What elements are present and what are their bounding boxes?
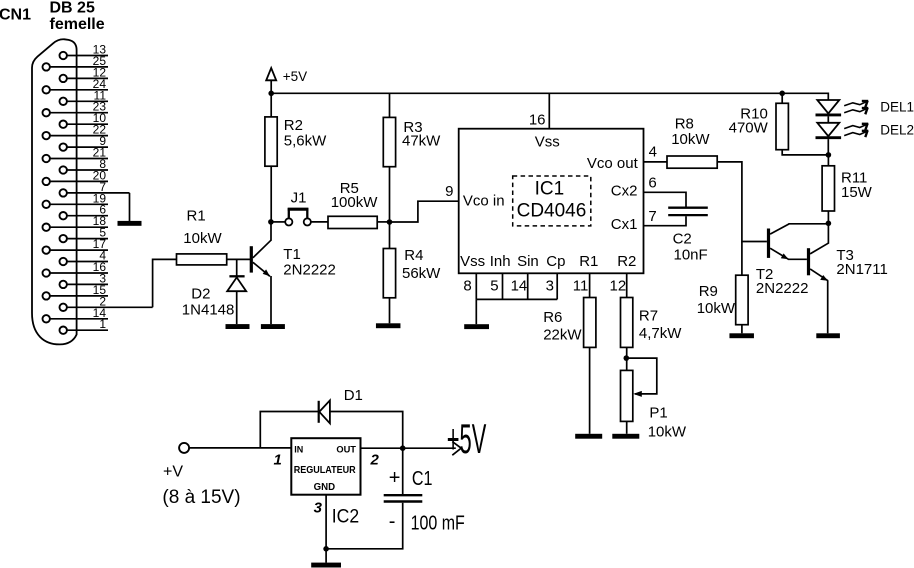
svg-text:2N2222: 2N2222 <box>283 261 336 278</box>
svg-text:10nF: 10nF <box>674 247 708 264</box>
svg-text:R9: R9 <box>699 283 718 300</box>
wire IC1 pin 11 to R6 <box>589 273 591 297</box>
svg-text:470W: 470W <box>729 119 769 136</box>
wire +V to regulator IN <box>189 447 291 449</box>
connector pin 6 contact <box>60 212 67 219</box>
svg-text:R1: R1 <box>187 207 206 224</box>
wire node to IC1 pin 9 <box>390 201 459 222</box>
svg-text:15W: 15W <box>841 184 873 201</box>
svg-text:Vco out: Vco out <box>587 155 639 172</box>
svg-text:10kW: 10kW <box>183 230 222 247</box>
wire pin 12 lead <box>67 77 108 79</box>
connector pin 2 contact <box>60 304 67 311</box>
ground R6 <box>575 434 602 439</box>
wire pin 19 lead <box>50 203 108 205</box>
wire pin 9 lead <box>67 146 108 148</box>
svg-text:9: 9 <box>445 183 453 200</box>
wire pin 18 lead <box>50 226 108 228</box>
svg-text:CD4046: CD4046 <box>517 201 587 222</box>
wire pin 21 lead <box>50 158 108 160</box>
connector pin 7 contact <box>60 189 67 196</box>
node T2 T3 collectors <box>826 221 832 227</box>
svg-text:2N2222: 2N2222 <box>756 280 809 297</box>
wire pin 22 lead <box>50 135 108 137</box>
wire R11 to collector node <box>827 211 829 223</box>
LED DEL1 <box>816 100 842 115</box>
wire DEL2 to node <box>827 139 829 155</box>
wire pin 3 lead <box>67 283 108 285</box>
connector pin 5 contact <box>60 235 67 242</box>
op-amp/PLL IC1 CD4046 box <box>459 129 644 274</box>
wire pin 7 to ground <box>129 193 131 221</box>
svg-text:12: 12 <box>610 278 627 295</box>
node R7 P1 wiper <box>624 355 630 361</box>
wire IC1 pin 3 <box>556 273 558 299</box>
svg-text:DEL1: DEL1 <box>880 100 914 115</box>
svg-text:D2: D2 <box>191 286 210 303</box>
svg-text:T1: T1 <box>283 246 301 263</box>
svg-text:IC1: IC1 <box>535 178 565 199</box>
wire pin 8 lead <box>67 169 108 171</box>
svg-text:R2: R2 <box>617 253 636 270</box>
svg-text:DEL2: DEL2 <box>880 122 914 137</box>
wire R2 to T1 collector <box>270 166 272 222</box>
resistor R5 <box>328 216 377 228</box>
wire IC1 pin 16 to rail <box>548 93 550 128</box>
wire pin 25 lead <box>50 66 108 68</box>
node R10 LED R11 <box>826 152 832 158</box>
wire pin 7 lead <box>67 192 130 194</box>
connector pin 14 contact <box>43 315 50 322</box>
regulator IC2 box <box>291 438 360 495</box>
wire pin 14 lead <box>50 318 108 320</box>
svg-text:DB 25: DB 25 <box>50 0 95 17</box>
node OUT D1 C1 <box>400 445 406 451</box>
wire IC1 pin 4 to R8 <box>644 161 668 163</box>
connector pin 22 contact <box>43 132 50 139</box>
svg-text:IN: IN <box>294 444 303 455</box>
svg-text:OUT: OUT <box>336 444 356 455</box>
wire pin 4 lead <box>67 261 108 263</box>
wire IC1 pin 14 <box>527 273 529 299</box>
wire +5V rail <box>271 93 828 100</box>
resistor R3 <box>383 117 395 166</box>
node GND C1 <box>323 546 329 552</box>
ground IC1 Vss <box>464 324 489 329</box>
wire branch to D1 <box>260 412 402 449</box>
svg-text:8: 8 <box>463 278 471 295</box>
resistor R2 <box>265 117 277 166</box>
wire IC1 pin 5 <box>502 273 504 299</box>
svg-text:IC2: IC2 <box>332 506 359 527</box>
svg-text:+5V: +5V <box>283 69 307 84</box>
connector pin 20 contact <box>43 178 50 185</box>
capacitor C1 <box>384 495 423 501</box>
wire pin 16 lead <box>50 272 108 274</box>
ground R4 <box>376 323 401 328</box>
resistor R6 <box>584 298 596 348</box>
wire IC1 pin 6 to C2 <box>644 192 687 206</box>
potentiometer P1 <box>621 358 657 421</box>
svg-text:10kW: 10kW <box>697 300 736 317</box>
IC1 dashed inner box <box>513 176 591 226</box>
connector pin 8 contact <box>60 166 67 173</box>
svg-text:10kW: 10kW <box>648 424 687 441</box>
node rail R10 junction <box>779 91 785 97</box>
svg-text:2: 2 <box>370 451 380 468</box>
node T1 collector J1 <box>268 219 274 225</box>
connector pin 13 contact <box>60 52 67 59</box>
wire R1 to T1 base <box>227 258 250 260</box>
transistor T2 2N2222 <box>767 224 829 259</box>
power +5V supply symbol <box>266 68 276 93</box>
wire regulator OUT to +5V arrow <box>361 447 456 449</box>
wire DEL1 to DEL2 <box>827 116 829 123</box>
wire rail to R3 <box>389 93 391 117</box>
wire pin 1 lead <box>67 329 108 331</box>
wire C1 to ground wire <box>326 503 403 549</box>
connector pin 17 contact <box>43 246 50 253</box>
wire R10 to LED node <box>782 150 828 155</box>
connector pin 1 contact <box>60 327 67 334</box>
wire tee to R9 <box>741 242 743 276</box>
wire R4 to ground <box>389 298 391 324</box>
svg-text:10kW: 10kW <box>671 131 710 148</box>
+5V output arrowhead <box>452 442 461 456</box>
svg-text:Sin: Sin <box>517 253 539 270</box>
connector pin 4 contact <box>60 258 67 265</box>
svg-text:Vss: Vss <box>460 253 485 270</box>
connector pin 25 contact <box>43 63 50 70</box>
svg-text:16: 16 <box>529 111 546 128</box>
wire pin 10 lead <box>67 123 108 125</box>
wire pin 20 lead <box>50 180 108 182</box>
wire D2 tap <box>236 259 238 275</box>
wire R3 to node <box>389 167 391 222</box>
svg-text:P1: P1 <box>649 405 667 422</box>
wire node to J1 <box>271 221 285 223</box>
wire pin 15 lead <box>50 295 108 297</box>
ground R9 <box>729 333 754 338</box>
wire IC1 pin 8 <box>475 273 477 299</box>
diode D2 <box>227 276 246 324</box>
wire pin 23 lead <box>50 112 108 114</box>
svg-text:1: 1 <box>99 317 106 331</box>
svg-text:R7: R7 <box>639 308 658 325</box>
wire J1 to R5 <box>311 221 328 223</box>
connector pin 19 contact <box>43 201 50 208</box>
svg-text:R8: R8 <box>675 115 694 132</box>
svg-text:+5V: +5V <box>447 415 487 462</box>
ground P1 <box>612 434 639 439</box>
svg-text:14: 14 <box>511 278 528 295</box>
connector pin 3 contact <box>60 281 67 288</box>
wire pin 5 lead <box>67 238 108 240</box>
diode D1 <box>319 400 330 423</box>
connector pin 24 contact <box>43 86 50 93</box>
svg-text:(8 à 15V): (8 à 15V) <box>162 487 240 508</box>
connector pin 10 contact <box>60 121 67 128</box>
wire ground bus pins 8-5-14-3 <box>476 298 557 300</box>
wire pin 11 lead <box>67 100 108 102</box>
svg-text:1N4148: 1N4148 <box>182 302 235 319</box>
svg-text:Cx2: Cx2 <box>611 183 638 200</box>
svg-text:CN1: CN1 <box>0 7 31 24</box>
LED DEL1 light arrows <box>844 101 868 115</box>
transistor T1 2N2222 <box>250 222 271 324</box>
svg-text:3: 3 <box>314 499 323 516</box>
LED DEL2 <box>816 123 842 138</box>
resistor R9 <box>736 275 748 325</box>
svg-text:100 mF: 100 mF <box>411 512 465 534</box>
connector pin 16 contact <box>43 269 50 276</box>
resistor R1 <box>177 254 227 265</box>
svg-text:56kW: 56kW <box>402 265 441 282</box>
wire pin 17 lead <box>50 249 108 251</box>
wire node to R4 <box>389 222 391 249</box>
resistor R11 <box>822 166 834 211</box>
connector pin 18 contact <box>43 224 50 231</box>
connector pin 21 contact <box>43 155 50 162</box>
svg-text:-: - <box>389 510 396 532</box>
wire pin 6 lead <box>67 215 108 217</box>
wire R7 to P1 <box>626 347 628 370</box>
node R3 R4 R5 <box>387 219 393 225</box>
resistor R7 <box>621 298 633 348</box>
connector pin 12 contact <box>60 75 67 82</box>
svg-text:Inh: Inh <box>490 253 511 270</box>
wire P1 to ground <box>626 421 628 433</box>
node rail R2 junction <box>268 91 274 97</box>
svg-text:C2: C2 <box>673 231 692 248</box>
wire pin 24 lead <box>50 89 108 91</box>
wire node to C1 <box>402 448 404 494</box>
connector pin 23 contact <box>43 109 50 116</box>
svg-text:J1: J1 <box>291 189 307 206</box>
wire R6 to ground <box>589 347 591 433</box>
svg-text:R1: R1 <box>579 253 598 270</box>
resistor R4 <box>383 249 395 298</box>
svg-text:REGULATEUR: REGULATEUR <box>294 465 357 476</box>
wire R5 to node <box>377 221 389 223</box>
svg-text:2N1711: 2N1711 <box>836 261 887 278</box>
connector pin 11 contact <box>60 98 67 105</box>
svg-text:5,6kW: 5,6kW <box>284 133 327 150</box>
wire IC1 pin 12 to R7 <box>626 273 628 297</box>
wire node to R11 <box>827 155 829 166</box>
svg-text:Vss: Vss <box>535 134 560 151</box>
resistor R8 <box>667 156 717 168</box>
connector pin 9 contact <box>60 143 67 150</box>
wire C2 to IC1 pin 7 <box>644 216 687 226</box>
resistor R10 <box>776 103 788 149</box>
ground T1 <box>261 324 285 329</box>
svg-text:R6: R6 <box>543 309 562 326</box>
svg-text:C1: C1 <box>412 468 433 490</box>
wire pin 13 lead <box>67 55 108 57</box>
ground pin 7 <box>118 221 142 226</box>
svg-text:11: 11 <box>573 278 589 295</box>
svg-text:4,7kW: 4,7kW <box>639 325 682 342</box>
wire pin 2 lead <box>67 306 153 308</box>
svg-text:D1: D1 <box>344 387 363 404</box>
wire rail to R10 <box>781 93 783 103</box>
jumper J1 <box>285 209 311 225</box>
svg-text:+: + <box>389 467 401 489</box>
wire rail to R2 <box>270 93 272 117</box>
wire bus to ground <box>475 299 477 324</box>
ground T3 <box>816 333 840 338</box>
wire pin 2 to R1 <box>153 259 177 307</box>
svg-text:+V: +V <box>163 463 183 480</box>
svg-text:5: 5 <box>490 278 498 295</box>
label bottom pin names Vss Inh Sin Cp R1 R2 <box>460 253 636 270</box>
svg-text:femelle: femelle <box>50 16 105 33</box>
svg-text:1: 1 <box>274 451 282 468</box>
svg-text:47kW: 47kW <box>402 132 441 149</box>
connector pin 15 contact <box>43 292 50 299</box>
transistor T3 2N1711 <box>807 223 829 333</box>
wire R8 to T2 base <box>717 162 767 242</box>
svg-text:6: 6 <box>648 175 656 192</box>
wire R9 to ground <box>741 325 743 334</box>
svg-text:4: 4 <box>649 144 657 161</box>
svg-text:3: 3 <box>546 278 554 295</box>
svg-text:22kW: 22kW <box>543 327 582 344</box>
svg-text:Cp: Cp <box>546 253 565 270</box>
svg-text:Cx1: Cx1 <box>611 216 638 233</box>
svg-text:100kW: 100kW <box>331 194 379 211</box>
ground D2 <box>226 324 250 329</box>
terminal +V input <box>179 443 189 453</box>
capacitor C2 <box>668 208 708 215</box>
LED DEL2 light arrows <box>844 123 868 137</box>
svg-text:Vco in: Vco in <box>463 193 505 210</box>
ground regulator <box>311 563 341 568</box>
wire regulator GND down <box>325 495 327 563</box>
svg-text:7: 7 <box>648 208 656 225</box>
connector CN1 DB25 shell outline <box>32 39 77 344</box>
label DB 25 femelle <box>50 0 105 33</box>
svg-text:R4: R4 <box>404 247 423 264</box>
svg-text:GND: GND <box>314 482 336 493</box>
